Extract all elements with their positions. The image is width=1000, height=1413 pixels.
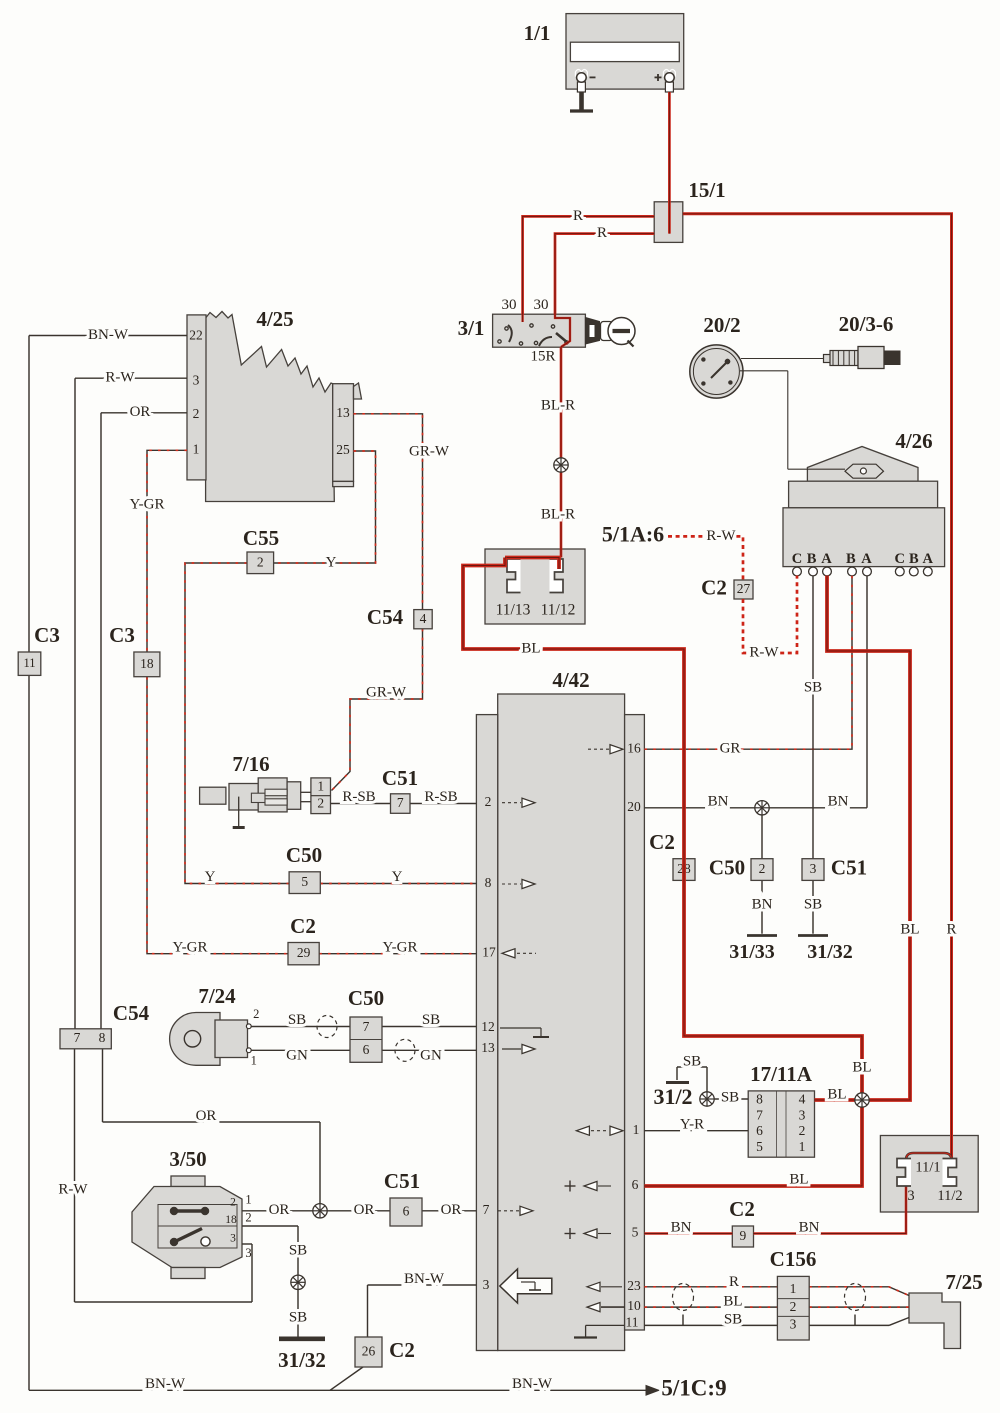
svg-text:3/1: 3/1	[458, 316, 485, 340]
svg-text:10: 10	[627, 1298, 641, 1313]
svg-text:SB: SB	[724, 1311, 742, 1327]
svg-text:Y-GR: Y-GR	[382, 939, 417, 955]
svg-text:1: 1	[193, 441, 200, 456]
svg-text:7: 7	[74, 1030, 81, 1045]
svg-text:4: 4	[420, 611, 427, 626]
svg-text:3: 3	[799, 1107, 806, 1122]
svg-text:BL: BL	[789, 1171, 808, 1187]
svg-text:OR: OR	[130, 404, 151, 420]
svg-text:SB: SB	[804, 679, 822, 695]
svg-text:Y-R: Y-R	[680, 1116, 704, 1132]
svg-text:OR: OR	[354, 1202, 375, 1218]
svg-text:3: 3	[790, 1316, 797, 1331]
svg-text:11/12: 11/12	[541, 602, 576, 619]
svg-text:7: 7	[397, 795, 404, 810]
svg-text:R-SB: R-SB	[342, 789, 375, 805]
svg-text:BN: BN	[752, 896, 773, 912]
svg-text:3: 3	[483, 1277, 490, 1292]
svg-text:23: 23	[627, 1278, 641, 1293]
svg-text:C50: C50	[709, 855, 745, 879]
svg-text:2: 2	[485, 794, 492, 809]
svg-text:GR-W: GR-W	[409, 443, 450, 459]
svg-text:11/13: 11/13	[496, 602, 531, 619]
svg-text:20: 20	[627, 799, 641, 814]
svg-text:5: 5	[756, 1139, 763, 1154]
svg-text:15/1: 15/1	[688, 178, 725, 202]
svg-text:8: 8	[756, 1091, 763, 1106]
svg-text:SB: SB	[804, 896, 822, 912]
svg-text:11: 11	[626, 1315, 639, 1330]
svg-text:5/1A:6: 5/1A:6	[602, 521, 664, 546]
svg-text:31/2: 31/2	[653, 1084, 692, 1109]
svg-text:BN: BN	[828, 793, 849, 809]
svg-text:BL: BL	[521, 640, 540, 656]
svg-text:C: C	[895, 551, 905, 567]
svg-text:2: 2	[790, 1299, 797, 1314]
svg-text:C2: C2	[290, 914, 316, 938]
svg-text:R: R	[946, 921, 956, 937]
svg-text:4/42: 4/42	[552, 668, 589, 692]
svg-text:R-W: R-W	[58, 1181, 88, 1197]
svg-text:C3: C3	[34, 623, 60, 647]
svg-text:B: B	[807, 551, 817, 567]
svg-text:GN: GN	[286, 1048, 308, 1064]
svg-text:BN-W: BN-W	[512, 1376, 553, 1392]
svg-text:C156: C156	[770, 1247, 817, 1271]
svg-text:OR: OR	[269, 1202, 290, 1218]
svg-text:9: 9	[740, 1228, 747, 1243]
svg-text:7: 7	[363, 1019, 370, 1034]
svg-text:26: 26	[362, 1344, 376, 1359]
svg-text:BN: BN	[708, 793, 729, 809]
svg-text:3: 3	[193, 372, 200, 387]
svg-text:C55: C55	[243, 526, 279, 550]
svg-text:1: 1	[790, 1281, 797, 1296]
svg-text:8: 8	[485, 875, 492, 890]
svg-text:4: 4	[799, 1091, 806, 1106]
svg-text:5: 5	[632, 1225, 639, 1240]
svg-text:R: R	[573, 208, 583, 224]
svg-text:Y: Y	[326, 554, 337, 570]
svg-text:30: 30	[534, 297, 549, 313]
svg-text:15R: 15R	[530, 348, 555, 364]
svg-text:31/32: 31/32	[278, 1348, 326, 1372]
svg-text:13: 13	[336, 405, 350, 420]
svg-text:31/33: 31/33	[729, 941, 775, 963]
svg-text:R: R	[729, 1274, 739, 1290]
svg-text:BN: BN	[671, 1219, 692, 1235]
svg-text:BL-R: BL-R	[541, 506, 575, 522]
svg-text:16: 16	[627, 740, 641, 755]
svg-text:C51: C51	[384, 1169, 420, 1193]
svg-text:B: B	[846, 551, 856, 567]
svg-text:3/50: 3/50	[169, 1147, 206, 1171]
svg-text:C50: C50	[348, 986, 384, 1010]
svg-text:Y: Y	[205, 869, 216, 885]
svg-text:BL: BL	[852, 1059, 871, 1075]
svg-text:5/1C:9: 5/1C:9	[661, 1376, 726, 1401]
svg-text:A: A	[821, 551, 832, 567]
svg-text:C50: C50	[286, 843, 322, 867]
svg-text:13: 13	[481, 1040, 495, 1055]
svg-text:1/1: 1/1	[524, 21, 551, 45]
svg-text:R: R	[597, 225, 607, 241]
svg-text:B: B	[909, 551, 919, 567]
svg-text:7/25: 7/25	[945, 1270, 982, 1294]
svg-text:2: 2	[245, 1210, 251, 1224]
svg-text:25: 25	[336, 442, 350, 457]
svg-text:31/32: 31/32	[807, 941, 853, 963]
svg-text:18: 18	[225, 1214, 237, 1226]
svg-text:SB: SB	[289, 1309, 307, 1325]
svg-text:17: 17	[482, 944, 496, 959]
svg-text:7: 7	[483, 1202, 490, 1217]
svg-text:1: 1	[799, 1139, 806, 1154]
svg-text:1: 1	[317, 779, 324, 794]
svg-text:27: 27	[737, 581, 751, 596]
svg-text:C2: C2	[701, 575, 727, 599]
svg-text:2: 2	[317, 796, 324, 811]
svg-text:BN-W: BN-W	[88, 327, 129, 343]
svg-text:6: 6	[403, 1204, 410, 1219]
svg-text:2: 2	[257, 554, 264, 569]
svg-text:SB: SB	[289, 1242, 307, 1258]
svg-text:BN-W: BN-W	[145, 1376, 186, 1392]
svg-text:1: 1	[633, 1122, 640, 1137]
svg-text:12: 12	[481, 1019, 495, 1034]
svg-text:R-W: R-W	[105, 370, 135, 386]
svg-text:29: 29	[297, 945, 311, 960]
svg-text:GR: GR	[720, 741, 741, 757]
svg-text:GN: GN	[420, 1048, 442, 1064]
svg-text:2: 2	[230, 1197, 236, 1209]
svg-text:A: A	[923, 551, 934, 567]
svg-text:BL: BL	[900, 921, 919, 937]
svg-text:8: 8	[99, 1030, 106, 1045]
svg-text:7/16: 7/16	[232, 752, 269, 776]
svg-text:11: 11	[23, 656, 35, 670]
svg-text:GR-W: GR-W	[366, 684, 407, 700]
svg-text:3: 3	[810, 861, 817, 876]
svg-text:2: 2	[193, 406, 200, 421]
svg-text:Y-GR: Y-GR	[129, 496, 164, 512]
svg-text:SB: SB	[683, 1053, 701, 1069]
svg-text:17/11A: 17/11A	[750, 1062, 813, 1086]
svg-text:4/26: 4/26	[895, 429, 932, 453]
svg-text:6: 6	[363, 1042, 370, 1057]
svg-text:18: 18	[140, 656, 154, 671]
svg-text:2: 2	[759, 861, 766, 876]
svg-text:22: 22	[189, 328, 203, 343]
svg-text:C2: C2	[649, 830, 675, 854]
svg-text:SB: SB	[721, 1089, 739, 1105]
svg-text:A: A	[861, 551, 872, 567]
svg-text:OR: OR	[196, 1108, 217, 1124]
svg-text:BL: BL	[723, 1293, 742, 1309]
svg-text:SB: SB	[422, 1012, 440, 1028]
svg-text:Y: Y	[392, 869, 403, 885]
svg-text:C51: C51	[831, 855, 867, 879]
svg-text:2: 2	[253, 1007, 259, 1021]
svg-text:SB: SB	[288, 1012, 306, 1028]
svg-text:3: 3	[230, 1233, 236, 1245]
svg-text:7: 7	[756, 1107, 763, 1122]
svg-text:BN: BN	[799, 1219, 820, 1235]
svg-text:7/24: 7/24	[198, 984, 236, 1008]
svg-text:3: 3	[907, 1188, 914, 1204]
svg-text:BN-W: BN-W	[404, 1271, 445, 1287]
svg-text:C2: C2	[389, 1338, 415, 1362]
svg-text:OR: OR	[441, 1202, 462, 1218]
svg-text:4/25: 4/25	[256, 307, 293, 331]
svg-text:30: 30	[502, 297, 517, 313]
svg-text:2: 2	[799, 1123, 806, 1138]
svg-text:20/3-6: 20/3-6	[839, 312, 894, 336]
svg-text:C: C	[792, 551, 802, 567]
svg-text:20/2: 20/2	[703, 313, 740, 337]
svg-text:C51: C51	[382, 766, 418, 790]
svg-text:5: 5	[301, 874, 308, 889]
svg-text:C3: C3	[109, 623, 135, 647]
svg-text:R-SB: R-SB	[424, 789, 457, 805]
svg-text:3: 3	[245, 1246, 251, 1260]
svg-text:C54: C54	[113, 1001, 150, 1025]
svg-text:Y-GR: Y-GR	[172, 939, 207, 955]
svg-text:C54: C54	[367, 605, 404, 629]
svg-text:1: 1	[251, 1053, 257, 1067]
svg-text:6: 6	[756, 1123, 763, 1138]
svg-text:6: 6	[632, 1177, 639, 1192]
svg-text:R-W: R-W	[749, 644, 779, 660]
svg-text:1: 1	[245, 1192, 251, 1206]
svg-text:C2: C2	[729, 1197, 755, 1221]
svg-text:BL-R: BL-R	[541, 397, 575, 413]
svg-text:11/2: 11/2	[937, 1188, 962, 1204]
svg-text:11/1: 11/1	[915, 1159, 940, 1175]
svg-text:R-W: R-W	[706, 528, 736, 544]
svg-text:BL: BL	[827, 1086, 846, 1102]
